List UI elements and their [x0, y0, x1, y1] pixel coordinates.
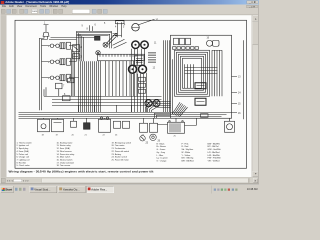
wire color code [157, 142, 168, 162]
wire [40, 36, 45, 110]
trim motor M1 [145, 100, 152, 107]
node 14 [232, 92, 242, 94]
svg-text:25: 25 [174, 135, 177, 137]
svg-text:4: 4 [124, 24, 126, 26]
connector pin comb [148, 52, 156, 63]
control inner wiring [175, 50, 210, 96]
svg-text:5: 5 [104, 23, 106, 25]
menu bar [0, 5, 259, 9]
svg-text:16: 16 [238, 113, 241, 115]
control bottom box [201, 114, 209, 118]
main switch relay [195, 83, 206, 89]
relay box 26 [114, 121, 121, 136]
oil pump 19 [52, 119, 64, 136]
svg-text:7: 7 [63, 85, 65, 87]
svg-text:11: 11 [154, 42, 157, 44]
control internal wires [173, 59, 218, 114]
component drop wires [44, 118, 230, 123]
svg-text:22: 22 [103, 134, 106, 136]
control harness left [164, 40, 170, 112]
svg-text:6: 6 [95, 24, 97, 26]
svg-text:14: 14 [238, 92, 241, 94]
oil meter 14 [139, 65, 156, 73]
gauge connector box [135, 56, 145, 66]
fuse box 23 [140, 123, 148, 136]
starting motor 22 [99, 117, 111, 136]
harness to remote control [146, 101, 171, 112]
schematic border frame [15, 20, 247, 168]
vertical scrollbar [252, 15, 259, 177]
legend column 1 [17, 141, 32, 167]
svg-text:20: 20 [72, 134, 75, 136]
wire loom nest [77, 31, 112, 61]
caption [9, 170, 251, 174]
relay box 27 [123, 121, 130, 128]
trim relay 24 [150, 123, 158, 136]
kill switch lever [107, 34, 117, 45]
node 13 [232, 76, 242, 78]
svg-text:26: 26 [115, 134, 118, 136]
buzzer 16 [207, 37, 220, 46]
rectifier box [73, 45, 83, 52]
ignition coil 4 [42, 74, 71, 81]
svg-text:9: 9 [82, 25, 84, 27]
sensor 20 [71, 121, 77, 136]
status bar with horizontal scrollbar [0, 177, 259, 184]
window bottom edge [0, 183, 259, 185]
battery 25 [168, 121, 185, 138]
document area [0, 15, 259, 177]
tachometer 10 [132, 19, 159, 31]
trim motor M2 [153, 100, 160, 107]
ignition coil 2 [42, 42, 71, 49]
pulser coil [96, 51, 101, 56]
fuse holder [73, 54, 83, 59]
window title bar [0, 0, 259, 5]
svg-text:21: 21 [85, 134, 88, 136]
harness wires [79, 61, 101, 113]
svg-text:25: 25 [146, 142, 149, 144]
charge coil leads [116, 21, 125, 38]
control right wires [212, 50, 222, 96]
svg-text:12: 12 [153, 67, 156, 69]
spark plug cap 1 [43, 22, 49, 36]
legend column 3 [112, 141, 132, 161]
ignition coil 3 [42, 58, 71, 65]
battery leads [158, 118, 197, 125]
svg-text:8: 8 [64, 94, 66, 96]
svg-text:15: 15 [238, 103, 241, 105]
junction box [63, 94, 71, 101]
connector stack [139, 77, 146, 93]
frame-side wire [242, 40, 244, 119]
nest tie wires [113, 26, 126, 35]
svg-text:19: 19 [56, 134, 59, 136]
svg-text:18: 18 [42, 134, 45, 136]
svg-text:13: 13 [238, 76, 241, 78]
neutral switch [174, 38, 191, 45]
CDI output wires [106, 61, 138, 97]
starter relay 21 [84, 123, 91, 137]
junction box 9 [68, 76, 75, 83]
trim meter 11 [132, 41, 140, 49]
trim gauge symbol [139, 134, 169, 149]
legend column 2 [57, 141, 75, 167]
node 16 [232, 113, 242, 115]
flywheel magneto [103, 42, 108, 47]
svg-text:1: 1 [44, 22, 46, 24]
svg-text:16: 16 [207, 37, 210, 39]
meter wiring [132, 49, 147, 113]
trim switch relay [195, 98, 206, 105]
coil feed wires [49, 37, 79, 78]
toolbar [0, 8, 259, 15]
svg-text:+: + [48, 78, 50, 80]
harness exit loop [155, 102, 188, 118]
tilt motor [225, 121, 235, 132]
svg-text:8: 8 [87, 28, 89, 30]
coil return wires [72, 49, 75, 96]
taskbar [0, 185, 259, 195]
wire loop bundle [44, 83, 65, 96]
lanyard diagonal wires [113, 39, 127, 48]
node labels top [82, 23, 134, 31]
bus link wires [79, 105, 132, 112]
pdf page [7, 15, 252, 177]
CDI unit box [98, 54, 145, 61]
hour meter 13 [129, 65, 137, 73]
main bus wires [19, 112, 232, 118]
wire [42, 36, 48, 110]
svg-text:5: 5 [123, 26, 125, 28]
thermo switch 18 [38, 119, 50, 136]
engine bus wires [44, 96, 162, 105]
meter face 21 [150, 134, 161, 142]
pulser lead wires [90, 25, 93, 31]
fuel meter 12 [141, 41, 157, 49]
svg-text:4: 4 [115, 26, 117, 28]
control connector row [173, 47, 199, 50]
node 15 [232, 103, 242, 105]
window edges [0, 5, 2, 184]
meter face 20 [140, 136, 149, 145]
remote control box [171, 35, 232, 118]
